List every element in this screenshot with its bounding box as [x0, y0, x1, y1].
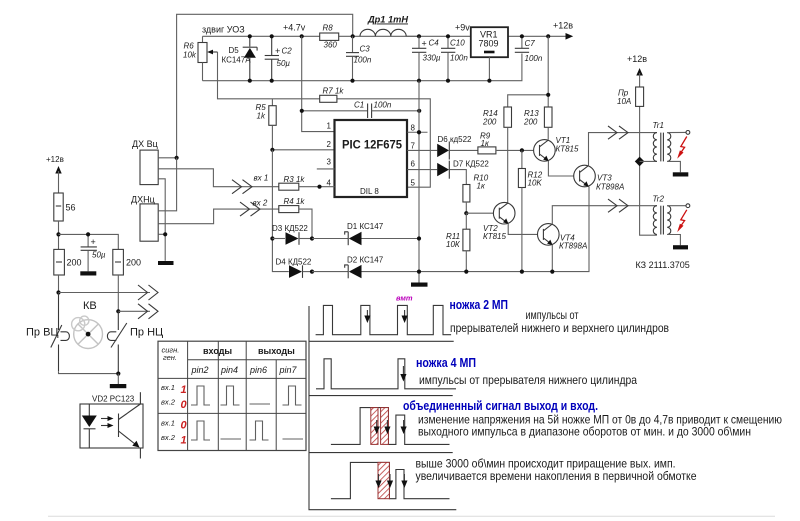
hatch band wf3 b — [381, 408, 389, 445]
svg-text:ДХ Вц: ДХ Вц — [132, 139, 158, 149]
resistor R14 200 — [482, 107, 512, 203]
svg-text:импульсы от: импульсы от — [526, 308, 579, 322]
svg-text:C4: C4 — [429, 39, 440, 48]
svg-text:10К: 10К — [446, 240, 461, 249]
junction dot VT1 base node — [520, 148, 524, 152]
svg-text:5: 5 — [411, 179, 416, 188]
potentiometer R6 — [183, 36, 218, 80]
regulator VR1 7809 — [471, 27, 508, 80]
svg-text:pin4: pin4 — [220, 365, 238, 375]
junction dot C7 top — [520, 34, 524, 38]
separator row2 — [309, 395, 453, 397]
svg-text:C1: C1 — [354, 101, 364, 110]
diode D4 KD522 — [276, 258, 313, 278]
wire branch to R14 — [508, 95, 549, 107]
junction dot C3 bottom — [350, 79, 354, 83]
hatch band wf4 — [378, 462, 389, 498]
wire VT4 collector to Tr2 — [552, 206, 657, 224]
junction dot D4 cathode — [310, 270, 314, 274]
svg-text:ножка 4 МП: ножка 4 МП — [416, 356, 476, 370]
breaker switch Pr VC — [26, 293, 69, 372]
svg-text:D7 КД522: D7 КД522 — [453, 160, 489, 169]
svg-text:330µ: 330µ — [423, 54, 441, 63]
svg-text:7809: 7809 — [479, 39, 499, 49]
svg-text:ген.: ген. — [163, 353, 177, 362]
svg-text:прерывателей нижнего и верхнег: прерывателей нижнего и верхнего цилиндро… — [450, 321, 669, 335]
svg-text:VD2 PC123: VD2 PC123 — [92, 395, 135, 404]
svg-text:вмт: вмт — [396, 294, 413, 303]
transistor VT3 KT898A — [574, 165, 625, 191]
junction dot left node — [56, 232, 60, 236]
chevron arrows vx1 — [232, 174, 279, 194]
wire fuse down to Tr2 — [640, 161, 657, 235]
svg-text:56: 56 — [66, 203, 76, 213]
wire VT1 emitter to VT3 base — [548, 161, 573, 176]
svg-text:200: 200 — [126, 258, 141, 268]
node Vdd branch dot — [300, 34, 304, 38]
table pulse pin7 row1 — [283, 386, 302, 405]
svg-text:выходы: выходы — [258, 346, 295, 356]
svg-text:200: 200 — [67, 258, 82, 268]
waveform axis — [309, 306, 456, 510]
svg-text:6: 6 — [411, 160, 416, 169]
resistor R5 1k — [256, 99, 277, 150]
svg-text:10k: 10k — [183, 51, 197, 60]
waveform above 3000 — [331, 462, 450, 498]
svg-text:200: 200 — [523, 118, 538, 127]
svg-text:3: 3 — [327, 158, 332, 167]
transistor VT4 KT898A — [538, 224, 588, 251]
junction dot KV right — [116, 309, 120, 313]
svg-text:+: + — [275, 46, 280, 56]
junction dot R12 gnd — [520, 270, 524, 274]
hatch band wf3 a — [371, 408, 378, 445]
junction dot supply — [175, 156, 179, 160]
svg-text:pin2: pin2 — [191, 365, 209, 375]
svg-text:100n: 100n — [374, 101, 392, 110]
capacitor C2 50u — [265, 36, 293, 80]
svg-text:DIL 8: DIL 8 — [360, 187, 379, 196]
svg-text:увеличивается времени накоплен: увеличивается времени накопления в перви… — [416, 469, 697, 483]
svg-text:R4 1k: R4 1k — [284, 197, 306, 206]
ground bar main — [411, 283, 428, 287]
svg-text:D1 КС147: D1 КС147 — [347, 222, 384, 231]
junction dot D3 cathode — [310, 236, 314, 240]
junction dots C1 — [300, 109, 304, 113]
svg-text:0: 0 — [181, 399, 188, 411]
wire DXVc gnd pin — [158, 179, 165, 261]
ground bar switches — [110, 374, 127, 389]
wire DXVc supply pin — [158, 157, 176, 159]
svg-text:КТ898А: КТ898А — [559, 242, 587, 251]
wire +12 down to R13/R14 — [547, 36, 549, 107]
wire supply down to DXNc — [158, 158, 176, 211]
arrow mark wf1 a — [364, 310, 370, 323]
transistor VT1 KT815 — [534, 136, 579, 161]
chevron arrows vx2 — [239, 199, 279, 217]
transformer Tr1 — [653, 121, 690, 172]
svg-text:ДХНц: ДХНц — [131, 195, 155, 205]
diode D6 kd522 — [407, 135, 478, 160]
svg-text:C3: C3 — [360, 45, 371, 54]
arrow +12 fuse up — [636, 68, 643, 76]
wire vertical to D3/D4 anodes — [272, 150, 288, 272]
transistor VT2 KT815 — [483, 202, 515, 241]
svg-text:1к: 1к — [477, 182, 486, 191]
wire VT3 collector to Tr1 — [589, 133, 657, 166]
table flat pin4 row2 — [221, 438, 242, 440]
wire pin3 stub — [317, 168, 335, 170]
junction dot VR1 gnd — [487, 79, 491, 83]
wire VT2 emitter to VT4 base — [508, 224, 537, 235]
junction dots C2 — [270, 34, 274, 38]
svg-text:ножка 2 МП: ножка 2 МП — [450, 298, 509, 312]
svg-text:+4.7v: +4.7v — [283, 23, 306, 33]
separator row1 — [309, 340, 454, 342]
svg-text:входы: входы — [203, 346, 232, 356]
svg-text:+12в: +12в — [553, 21, 573, 31]
arrow +12 right — [566, 33, 574, 40]
svg-text:+12в: +12в — [46, 155, 64, 164]
svg-text:50µ: 50µ — [92, 251, 106, 260]
ground bar Tr1 — [673, 172, 689, 176]
svg-text:2: 2 — [327, 140, 332, 149]
junction dots D5 — [248, 34, 252, 38]
svg-text:100n: 100n — [525, 54, 543, 63]
table pulse pin6 row2 — [250, 421, 269, 440]
svg-text:импульсы от прерывателя нижнег: импульсы от прерывателя нижнего цилиндра — [419, 373, 637, 387]
svg-text:КТ815: КТ815 — [483, 232, 507, 241]
diode D7 KD522 — [407, 160, 489, 185]
svg-text:+9v: +9v — [455, 23, 470, 33]
arrow mark wf3 b — [384, 420, 390, 434]
table flat pin7 row2 — [283, 438, 304, 440]
optocoupler VD2 PC123 — [80, 392, 143, 458]
junction dot KV left — [56, 290, 60, 294]
svg-text:0: 0 — [181, 420, 188, 432]
resistor R12 10K — [518, 150, 542, 271]
junction dot VT2 base node — [464, 211, 468, 215]
svg-text:здвиг УОЗ: здвиг УОЗ — [202, 25, 245, 35]
svg-text:D5: D5 — [229, 46, 240, 55]
capacitor C10 100n — [441, 36, 468, 80]
svg-text:1: 1 — [327, 122, 332, 131]
svg-text:100n: 100n — [354, 56, 372, 65]
svg-text:+12в: +12в — [627, 54, 647, 64]
junction dot cap — [86, 232, 90, 236]
junction dot pin8 gnd — [417, 130, 421, 134]
waveform pulses leg4MP — [316, 359, 456, 389]
waveform combined signal — [331, 408, 450, 445]
node +12 branch dot — [546, 34, 550, 38]
capacitor C7 100n — [515, 36, 543, 63]
wire KV arrow 1 — [59, 292, 151, 294]
sensor box DX Vc — [132, 139, 158, 185]
wire DXNc signal to vx2 — [158, 209, 239, 224]
junction dot switch gnd — [116, 372, 120, 376]
junction dot Tr1 primary bottom — [635, 157, 645, 167]
table flat pin6 row1 — [250, 403, 271, 405]
wire R7 right to pin5 — [337, 99, 430, 187]
svg-text:D3 КД522: D3 КД522 — [272, 224, 308, 233]
svg-text:КС147А: КС147А — [222, 56, 252, 65]
svg-text:R8: R8 — [323, 24, 334, 33]
svg-text:R7 1k: R7 1k — [323, 87, 345, 96]
resistor R11 10K — [446, 213, 470, 271]
svg-text:вх.2: вх.2 — [161, 433, 176, 442]
svg-text:вх.1: вх.1 — [161, 419, 175, 428]
svg-text:10А: 10А — [617, 97, 631, 106]
svg-text:C10: C10 — [450, 39, 465, 48]
svg-text:Пр НЦ: Пр НЦ — [130, 327, 163, 339]
junction dot R8 right node — [351, 34, 355, 38]
sensor box DXNc — [131, 195, 158, 242]
wire switch commons — [59, 371, 119, 373]
arrow mark wf3 a — [374, 420, 380, 434]
wire R7 row from R6 wiper — [218, 52, 320, 99]
junction dot pin4 — [317, 185, 321, 189]
resistor R7 1k — [320, 87, 345, 103]
svg-text:360: 360 — [324, 41, 338, 50]
transformer Tr2 — [653, 195, 690, 246]
svg-text:Пр ВЦ: Пр ВЦ — [26, 327, 59, 339]
svg-text:D4 КД522: D4 КД522 — [276, 258, 312, 267]
waveform pulses leg2MP — [316, 305, 452, 334]
table pulse pin4 row1 — [221, 386, 240, 405]
svg-text:R6: R6 — [184, 42, 195, 51]
svg-text:R3 1k: R3 1k — [284, 175, 306, 184]
resistor R3 1k — [279, 175, 335, 190]
wire ground vertical x=419 — [418, 81, 420, 283]
wire DXVc signal to vx1 — [158, 169, 239, 187]
svg-text:вх.1: вх.1 — [161, 383, 175, 392]
svg-text:pin7: pin7 — [279, 365, 298, 375]
resistor R9 1k — [478, 132, 534, 154]
svg-text:выходного импульса в диапазон: выходного импульса в диапазоне оборотов … — [418, 425, 751, 439]
node ground rail y=81 — [203, 54, 522, 81]
junction dots C10 — [446, 34, 450, 38]
breaker switch Pr NC — [107, 311, 163, 373]
resistor R10 1k — [463, 174, 489, 214]
wire bottom ground rail — [362, 187, 590, 272]
junction dot VT4 emitter — [550, 270, 554, 274]
svg-text:10K: 10K — [528, 179, 543, 188]
chevron arrows KV2 — [138, 304, 158, 319]
svg-text:1: 1 — [181, 384, 187, 396]
capacitor C4 330u — [412, 36, 441, 80]
svg-text:Tr1: Tr1 — [653, 121, 664, 130]
resistor R13 200 — [523, 107, 552, 140]
resistor 56 — [54, 171, 76, 249]
svg-text:1к: 1к — [481, 139, 490, 148]
junction dot pin2 — [270, 148, 274, 152]
rotor cam circles — [72, 316, 103, 348]
ground bar sensors — [158, 261, 174, 265]
resistor R4 1k — [279, 197, 312, 239]
chevron arrows output Tr2 — [608, 199, 628, 212]
inductor Dr1 1mH — [360, 15, 419, 37]
resistor R8 360 — [320, 24, 339, 50]
capacitor C1 100n — [302, 101, 419, 119]
capacitor 50u — [81, 234, 106, 271]
node +4.7v rail — [203, 35, 471, 37]
wire pin8 stub — [407, 131, 427, 133]
arrow mark wf3 c — [401, 420, 407, 434]
svg-text:объединенный сигнал выход и вх: объединенный сигнал выход и вход. — [403, 399, 598, 413]
svg-text:1k: 1k — [257, 112, 266, 121]
junction dot gnd sensors — [163, 232, 167, 236]
svg-text:КТ815: КТ815 — [556, 145, 580, 154]
table pulse pin2 row2 — [191, 421, 210, 440]
wire VT4 emitter to rail — [551, 245, 553, 272]
wire KV arrow 2 — [118, 310, 150, 312]
ground bar Tr2 — [673, 245, 688, 249]
wire D2 row / ground rail — [312, 271, 348, 273]
svg-text:C7: C7 — [525, 39, 536, 48]
svg-text:200: 200 — [482, 118, 497, 127]
wire DXNc gnd pin — [158, 233, 165, 235]
spark arrow Tr2 — [677, 210, 687, 232]
fuse Pr 10A — [617, 73, 644, 161]
svg-text:pin6: pin6 — [249, 365, 267, 375]
separator row3 — [309, 452, 453, 454]
arrow mark wf2 — [400, 366, 406, 382]
svg-text:вх 2: вх 2 — [253, 199, 268, 208]
svg-text:+: + — [91, 237, 96, 247]
chevron arrows output Tr1 — [608, 126, 628, 139]
svg-text:PIC 12F675: PIC 12F675 — [342, 140, 403, 152]
svg-text:+: + — [422, 39, 427, 49]
resistor 200 right — [113, 249, 141, 311]
arrow mark wf1 b — [402, 310, 408, 323]
wire Tr1 primary bottom — [640, 160, 657, 162]
junction dot D3 anode — [270, 236, 274, 240]
wire VT2 base — [466, 212, 493, 214]
junction dot Dr1 right — [417, 34, 421, 38]
wire pin2 row — [272, 149, 334, 151]
wire supply top loop from R8/Dr1 node to hall sensors — [177, 14, 353, 158]
junction dot C4 bottom — [417, 79, 421, 83]
junction dot R11 gnd — [464, 270, 468, 274]
zener D5 KC147A — [222, 36, 258, 80]
wire Vdd vertical to pin1 — [302, 36, 335, 131]
svg-text:100n: 100n — [450, 54, 468, 63]
diode D3 KD522 — [272, 224, 312, 245]
arrow mark wf4 c — [401, 474, 407, 488]
arrow mark wf4 a — [375, 474, 381, 488]
svg-text:1: 1 — [181, 435, 187, 447]
junction dot rail x419 — [417, 270, 421, 274]
chevron arrows KV1 — [138, 285, 158, 300]
svg-text:50µ: 50µ — [277, 59, 291, 68]
svg-text:КЗ 2111.3705: КЗ 2111.3705 — [636, 260, 690, 270]
svg-text:вх.2: вх.2 — [161, 398, 176, 407]
faint bottom line — [48, 515, 775, 517]
table truth — [158, 341, 306, 450]
svg-text:D6 кд522: D6 кд522 — [438, 135, 473, 144]
svg-text:VT3: VT3 — [597, 174, 612, 183]
svg-text:Др1 1mH: Др1 1mH — [367, 15, 409, 25]
ground bar cap — [80, 271, 96, 275]
wire to cap and R200 right — [59, 234, 119, 249]
svg-text:вх 1: вх 1 — [254, 174, 269, 183]
wire D1 row — [312, 238, 348, 240]
svg-text:КТ898А: КТ898А — [596, 183, 624, 192]
diode D1 KC147 zener — [345, 222, 419, 245]
capacitor C3 100n — [346, 36, 372, 80]
junction dot D1 gnd — [417, 236, 421, 240]
svg-text:C2: C2 — [282, 47, 293, 56]
junction dot +12 branch — [546, 93, 550, 97]
arrow +12 left up — [55, 166, 61, 174]
resistor 200 left — [54, 249, 82, 292]
svg-text:8: 8 — [411, 124, 416, 133]
wire D3 anode stub — [272, 238, 285, 240]
spark arrow Tr1 — [677, 137, 687, 159]
svg-text:7: 7 — [411, 142, 416, 151]
svg-text:Tr2: Tr2 — [653, 195, 665, 204]
diode D2 KC147 zener — [345, 256, 384, 279]
wire +9..+12 rail right of VR1 — [508, 35, 567, 37]
svg-text:D2 КС147: D2 КС147 — [347, 256, 384, 265]
svg-text:КВ: КВ — [83, 300, 97, 312]
IC U1 PIC 12F675 — [335, 120, 408, 197]
table pulse pin2 row1 — [191, 386, 210, 405]
arrow mark wf4 b — [387, 474, 393, 488]
